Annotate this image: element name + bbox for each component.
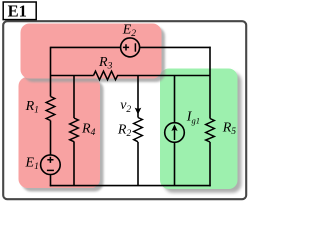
wire Ig1 branch upper xyxy=(174,76,176,123)
pink highlight upper region xyxy=(21,24,162,79)
wire left vertical upper xyxy=(50,47,52,97)
wire middle horizontal left xyxy=(51,75,94,77)
E1 title box xyxy=(3,2,36,20)
wire R2 branch upper xyxy=(137,76,139,118)
wire top left horizontal xyxy=(51,46,121,48)
resistor R2 xyxy=(134,118,143,142)
wire Ig1 branch lower xyxy=(174,142,176,185)
current arrow v2 xyxy=(135,108,142,115)
wire top right horizontal xyxy=(140,46,211,48)
wire left vertical lower xyxy=(50,121,52,156)
current source Ig1 xyxy=(165,123,185,143)
resistor R1 xyxy=(46,97,55,121)
wire R4 branch upper xyxy=(73,76,75,119)
svg-text:E1: E1 xyxy=(8,1,27,20)
resistor R5 xyxy=(206,119,215,143)
wire bottom horizontal xyxy=(50,185,211,187)
wire right vertical lower xyxy=(209,142,211,186)
wire right vertical upper xyxy=(209,47,211,119)
outer frame xyxy=(3,21,246,199)
resistor R4 xyxy=(70,118,79,142)
wire left vertical bottom xyxy=(50,174,52,186)
wire R4 branch lower xyxy=(73,142,75,186)
pink highlight lower region xyxy=(19,77,101,188)
resistor R3 xyxy=(94,71,120,80)
voltage source E2 xyxy=(121,38,140,57)
voltage source E1 xyxy=(41,155,61,175)
wire R2 branch lower xyxy=(137,142,139,186)
wire middle horizontal right xyxy=(120,75,211,77)
green highlight region xyxy=(160,69,238,190)
